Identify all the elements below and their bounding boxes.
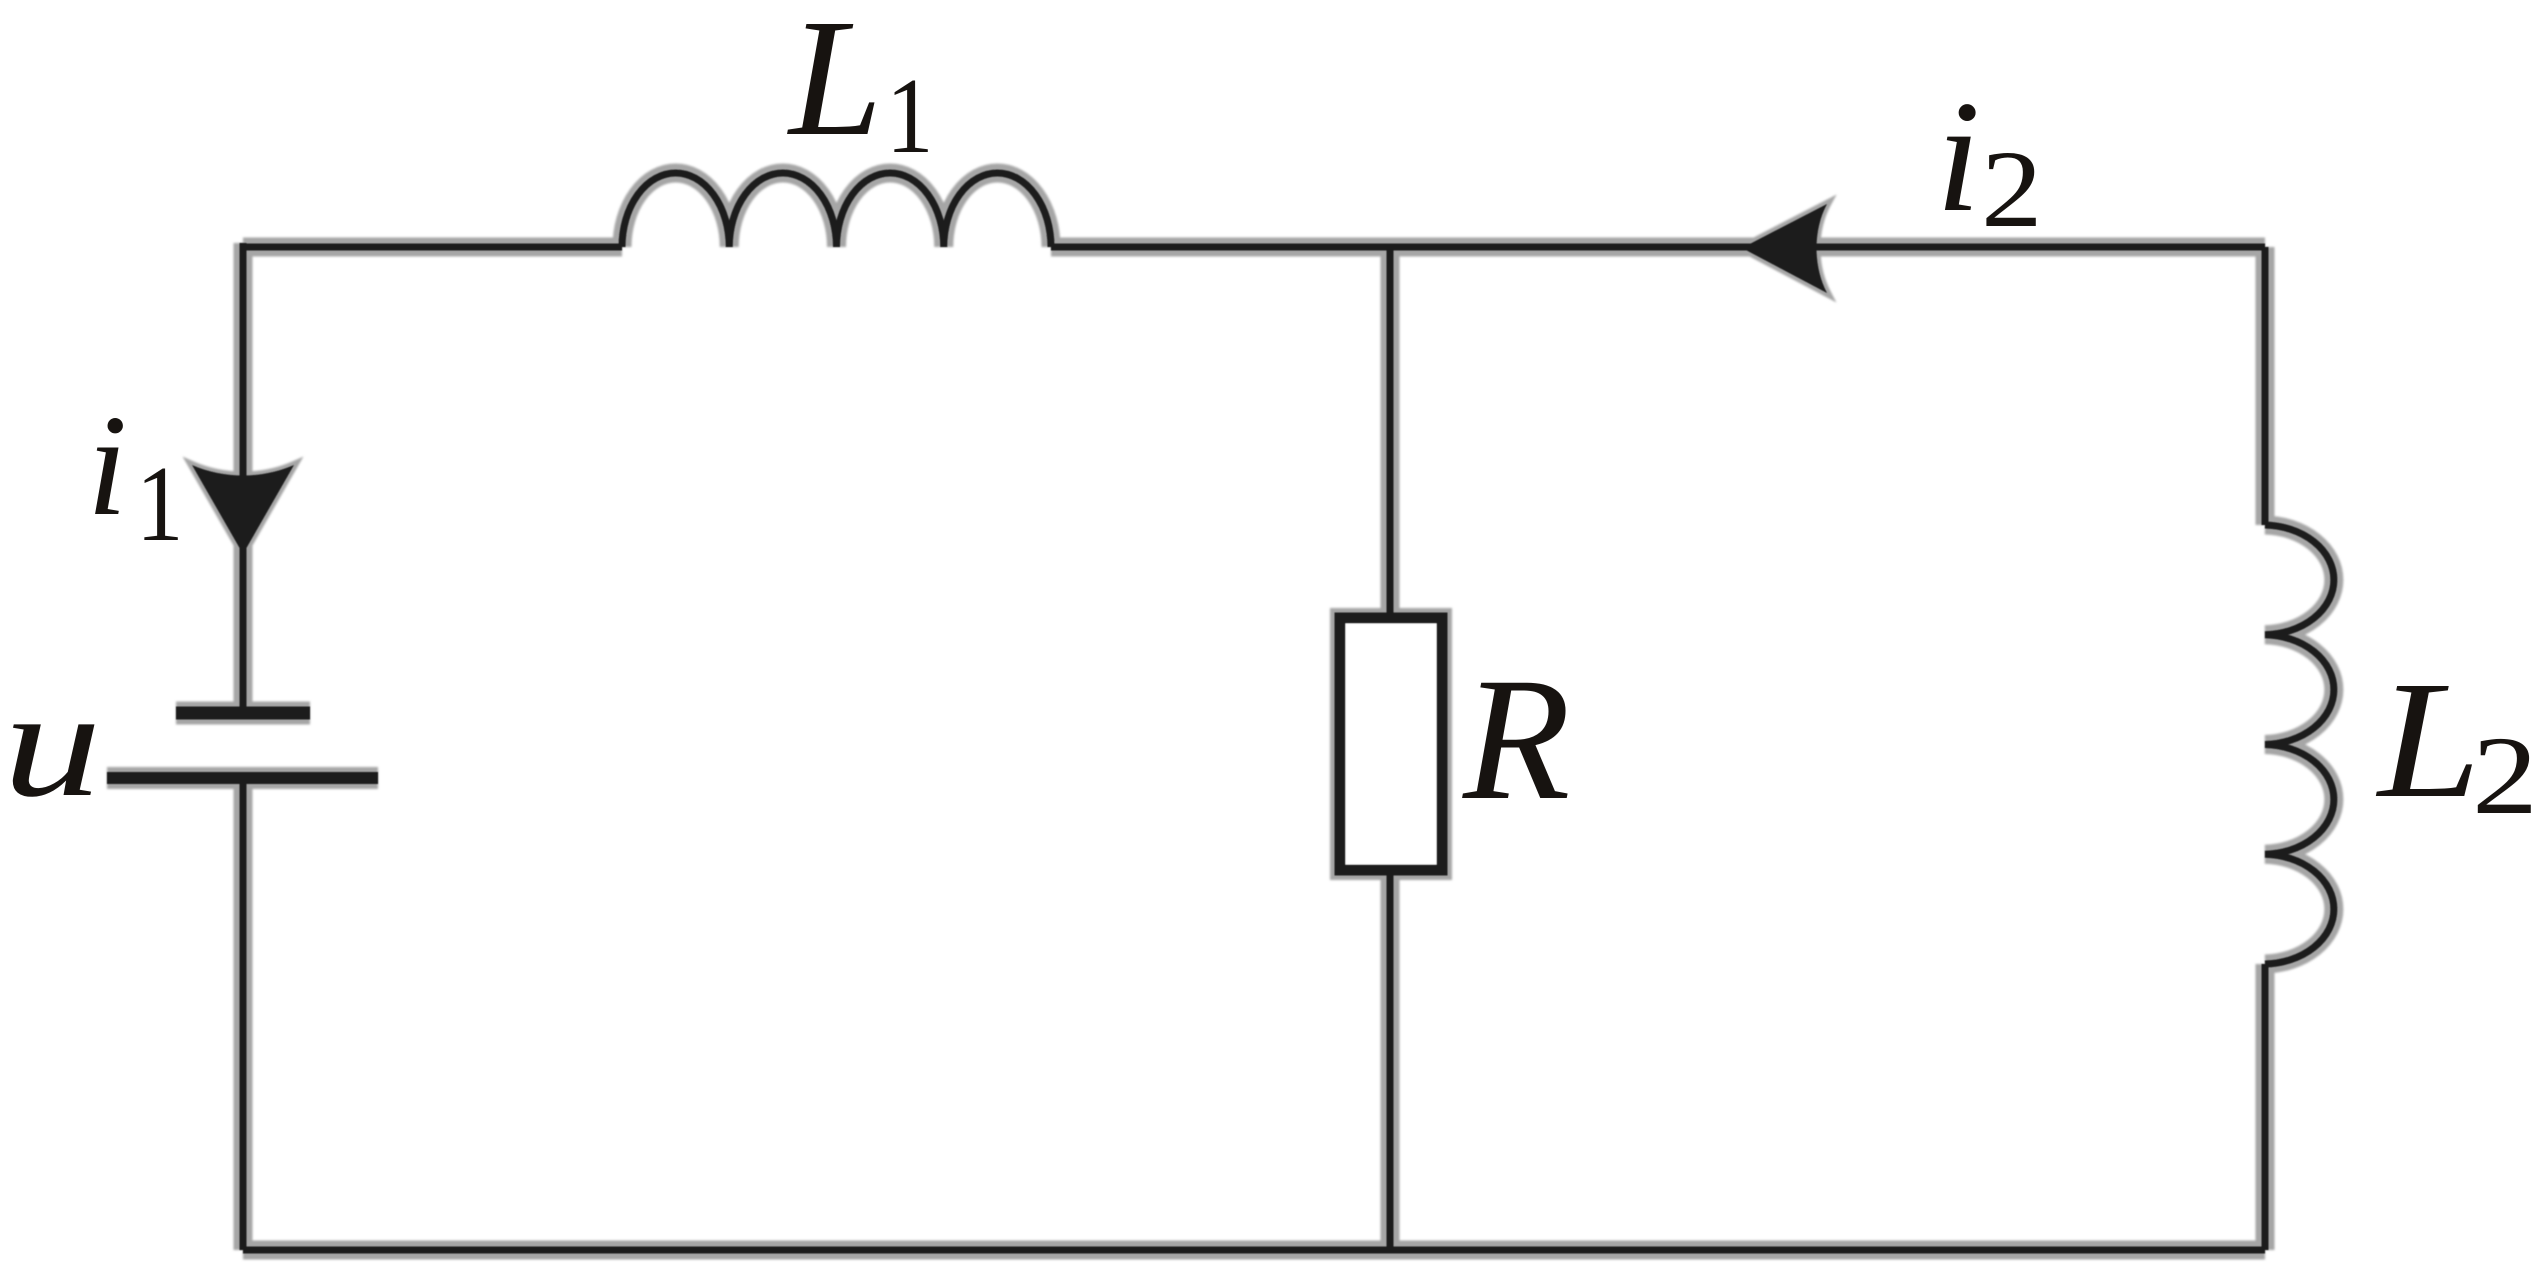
arrow i2 halo <box>1742 204 1827 293</box>
battery source u top plate <box>176 707 310 720</box>
label u <box>3 658 102 829</box>
wire middle lower halo <box>1381 870 1400 1250</box>
svg-text:L: L <box>2375 648 2481 834</box>
inductor L1 halo <box>622 173 1051 247</box>
wire left lower <box>240 778 247 1250</box>
svg-text:i: i <box>1936 67 1980 245</box>
wire middle upper <box>1387 247 1394 618</box>
arrow i2 head <box>1742 204 1827 293</box>
battery source u bottom plate <box>107 772 378 784</box>
wire left upper halo <box>234 243 253 710</box>
wire top right <box>1051 244 2265 251</box>
wire right lower <box>2262 964 2269 1250</box>
svg-text:L: L <box>787 0 882 171</box>
battery plate halo top <box>176 702 310 725</box>
wire left lower halo <box>234 778 253 1250</box>
svg-text:i: i <box>87 386 127 546</box>
wire left upper <box>240 243 247 710</box>
gray halo underlayer <box>107 173 2334 1250</box>
inductor L2 halo <box>2265 525 2334 964</box>
wire top left <box>243 244 622 251</box>
wire top left halo <box>243 238 622 257</box>
svg-text:u: u <box>3 658 102 829</box>
inductor L1 <box>622 173 1051 247</box>
wire middle upper halo <box>1381 247 1400 618</box>
label i1 <box>87 386 184 564</box>
svg-text:R: R <box>1462 642 1571 837</box>
wire bottom <box>243 1247 2265 1254</box>
label i2 <box>1936 67 2043 250</box>
wire middle lower <box>1387 870 1394 1250</box>
wire right lower halo <box>2256 964 2275 1250</box>
resistor R body <box>1340 618 1442 870</box>
black ink layer <box>107 173 2334 1250</box>
label L2 <box>2375 648 2538 838</box>
battery plate halo bottom <box>107 767 378 789</box>
arrow i1 head <box>192 465 294 554</box>
wire top right halo <box>1051 238 2265 257</box>
wire right upper <box>2262 247 2269 525</box>
label R <box>1462 642 1571 837</box>
inductor L2 <box>2265 525 2334 964</box>
svg-text:2: 2 <box>1981 129 2043 251</box>
arrow i1 halo <box>192 465 294 554</box>
svg-text:1: 1 <box>136 444 184 564</box>
svg-text:1: 1 <box>886 56 934 176</box>
resistor halo <box>1340 618 1442 870</box>
svg-text:2: 2 <box>2472 714 2538 837</box>
label L1 <box>787 0 934 176</box>
wire bottom halo <box>243 1241 2265 1260</box>
wire right upper halo <box>2256 247 2275 525</box>
